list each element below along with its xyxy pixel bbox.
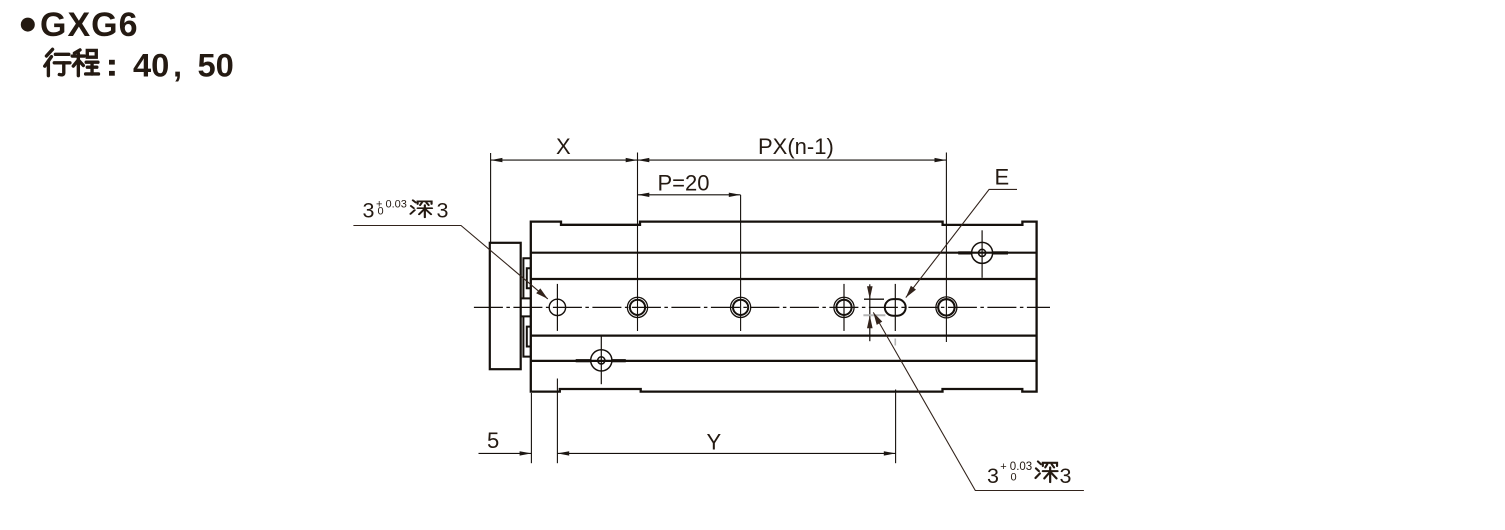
svg-text:3: 3 (437, 198, 449, 222)
callout text bottom right: 3 +0.03/0 深3 (987, 461, 1072, 488)
end plate (490, 243, 521, 369)
floating joint upper tab (521, 258, 531, 298)
callout 深 glyph bottom right (1035, 461, 1057, 482)
counterbore top right centerline (981, 230, 983, 277)
hole 2 (mounting hole) (627, 297, 647, 317)
body outline with table step recesses (531, 222, 1037, 392)
X dimension line (491, 159, 638, 161)
PX dim arrows (638, 158, 650, 162)
leader E (906, 189, 1017, 297)
hole 4 centerline (843, 284, 845, 331)
centerline (474, 306, 1050, 308)
svg-text:0: 0 (378, 206, 384, 218)
svg-text:3: 3 (1060, 464, 1072, 488)
slot width mini-dim lower edge (grey) (863, 314, 885, 316)
fullwidth colon (109, 60, 115, 65)
hole 1 (dowel hole 3+0.03 depth3) (549, 299, 565, 315)
Y dimension line (557, 452, 895, 454)
Y dim arrows (557, 451, 569, 455)
label 程 (stroke text) (72, 50, 98, 76)
svg-text:Y: Y (707, 430, 722, 455)
svg-text:P=20: P=20 (658, 171, 710, 196)
svg-text:+: + (1000, 461, 1006, 473)
body groove line C (531, 335, 1037, 337)
body groove line B (531, 278, 1037, 280)
floating joint lower tab (521, 316, 531, 356)
counterbore top right flank lines (958, 251, 971, 254)
X dim arrows (491, 158, 503, 162)
hole 1 centerline (556, 284, 558, 331)
slot hole E (885, 299, 906, 316)
callout text top left: 3 +0.03/0 深3 (363, 198, 449, 222)
leader dowel slot bottom right (873, 312, 1084, 490)
svg-text:X: X (556, 134, 571, 159)
svg-text:PX(n-1): PX(n-1) (758, 134, 834, 159)
svg-text:0: 0 (1011, 472, 1017, 484)
hole 3 (mounting hole) (731, 297, 751, 317)
svg-text:E: E (995, 165, 1010, 190)
X dim extension line left (490, 153, 492, 243)
hole 3 centerline / extension (740, 195, 742, 331)
hole 2 centerline / extension (637, 153, 639, 332)
slot width mini-dim upper edge (864, 298, 884, 300)
counterbore top right (972, 242, 993, 263)
P dimension line (638, 194, 741, 196)
PX dimension line (638, 159, 947, 161)
5 dim arrow (520, 451, 532, 455)
bullet (21, 18, 35, 32)
svg-text:3: 3 (987, 464, 999, 488)
counterbore bottom left centerline (600, 336, 602, 385)
slot mini-dim arrows (867, 286, 873, 299)
Y extension line right (slot) (895, 390, 897, 464)
callout 深 glyph top left (410, 200, 432, 217)
svg-text:0.03: 0.03 (386, 198, 407, 210)
slot centerline (894, 284, 896, 331)
5 dimension line (479, 452, 532, 454)
svg-text:40: 40 (133, 47, 169, 84)
svg-text:,: , (173, 47, 182, 84)
hole 6 (mounting hole) (936, 297, 957, 318)
5/Y extension line (body corner) (530, 393, 532, 463)
hole 4 (mounting hole) (834, 297, 854, 317)
slot centerline grey stub (894, 339, 896, 346)
svg-text:3: 3 (363, 198, 375, 222)
svg-text:50: 50 (198, 47, 234, 84)
label 行 (stroke text) (45, 49, 70, 75)
counterbore bottom left (591, 350, 612, 371)
leader dowel hole top left (353, 226, 547, 299)
P dim arrows (638, 193, 650, 197)
hole 6 centerline / extension (945, 153, 947, 343)
slot width mini-dim vertical line (869, 284, 871, 341)
Y extension line left (hole 1) (556, 379, 558, 464)
svg-text:5: 5 (487, 428, 499, 453)
svg-text:GXG6: GXG6 (40, 6, 138, 44)
body groove line A (531, 252, 1037, 254)
body groove line D (531, 360, 1037, 362)
counterbore bottom left flank lines (576, 359, 591, 362)
